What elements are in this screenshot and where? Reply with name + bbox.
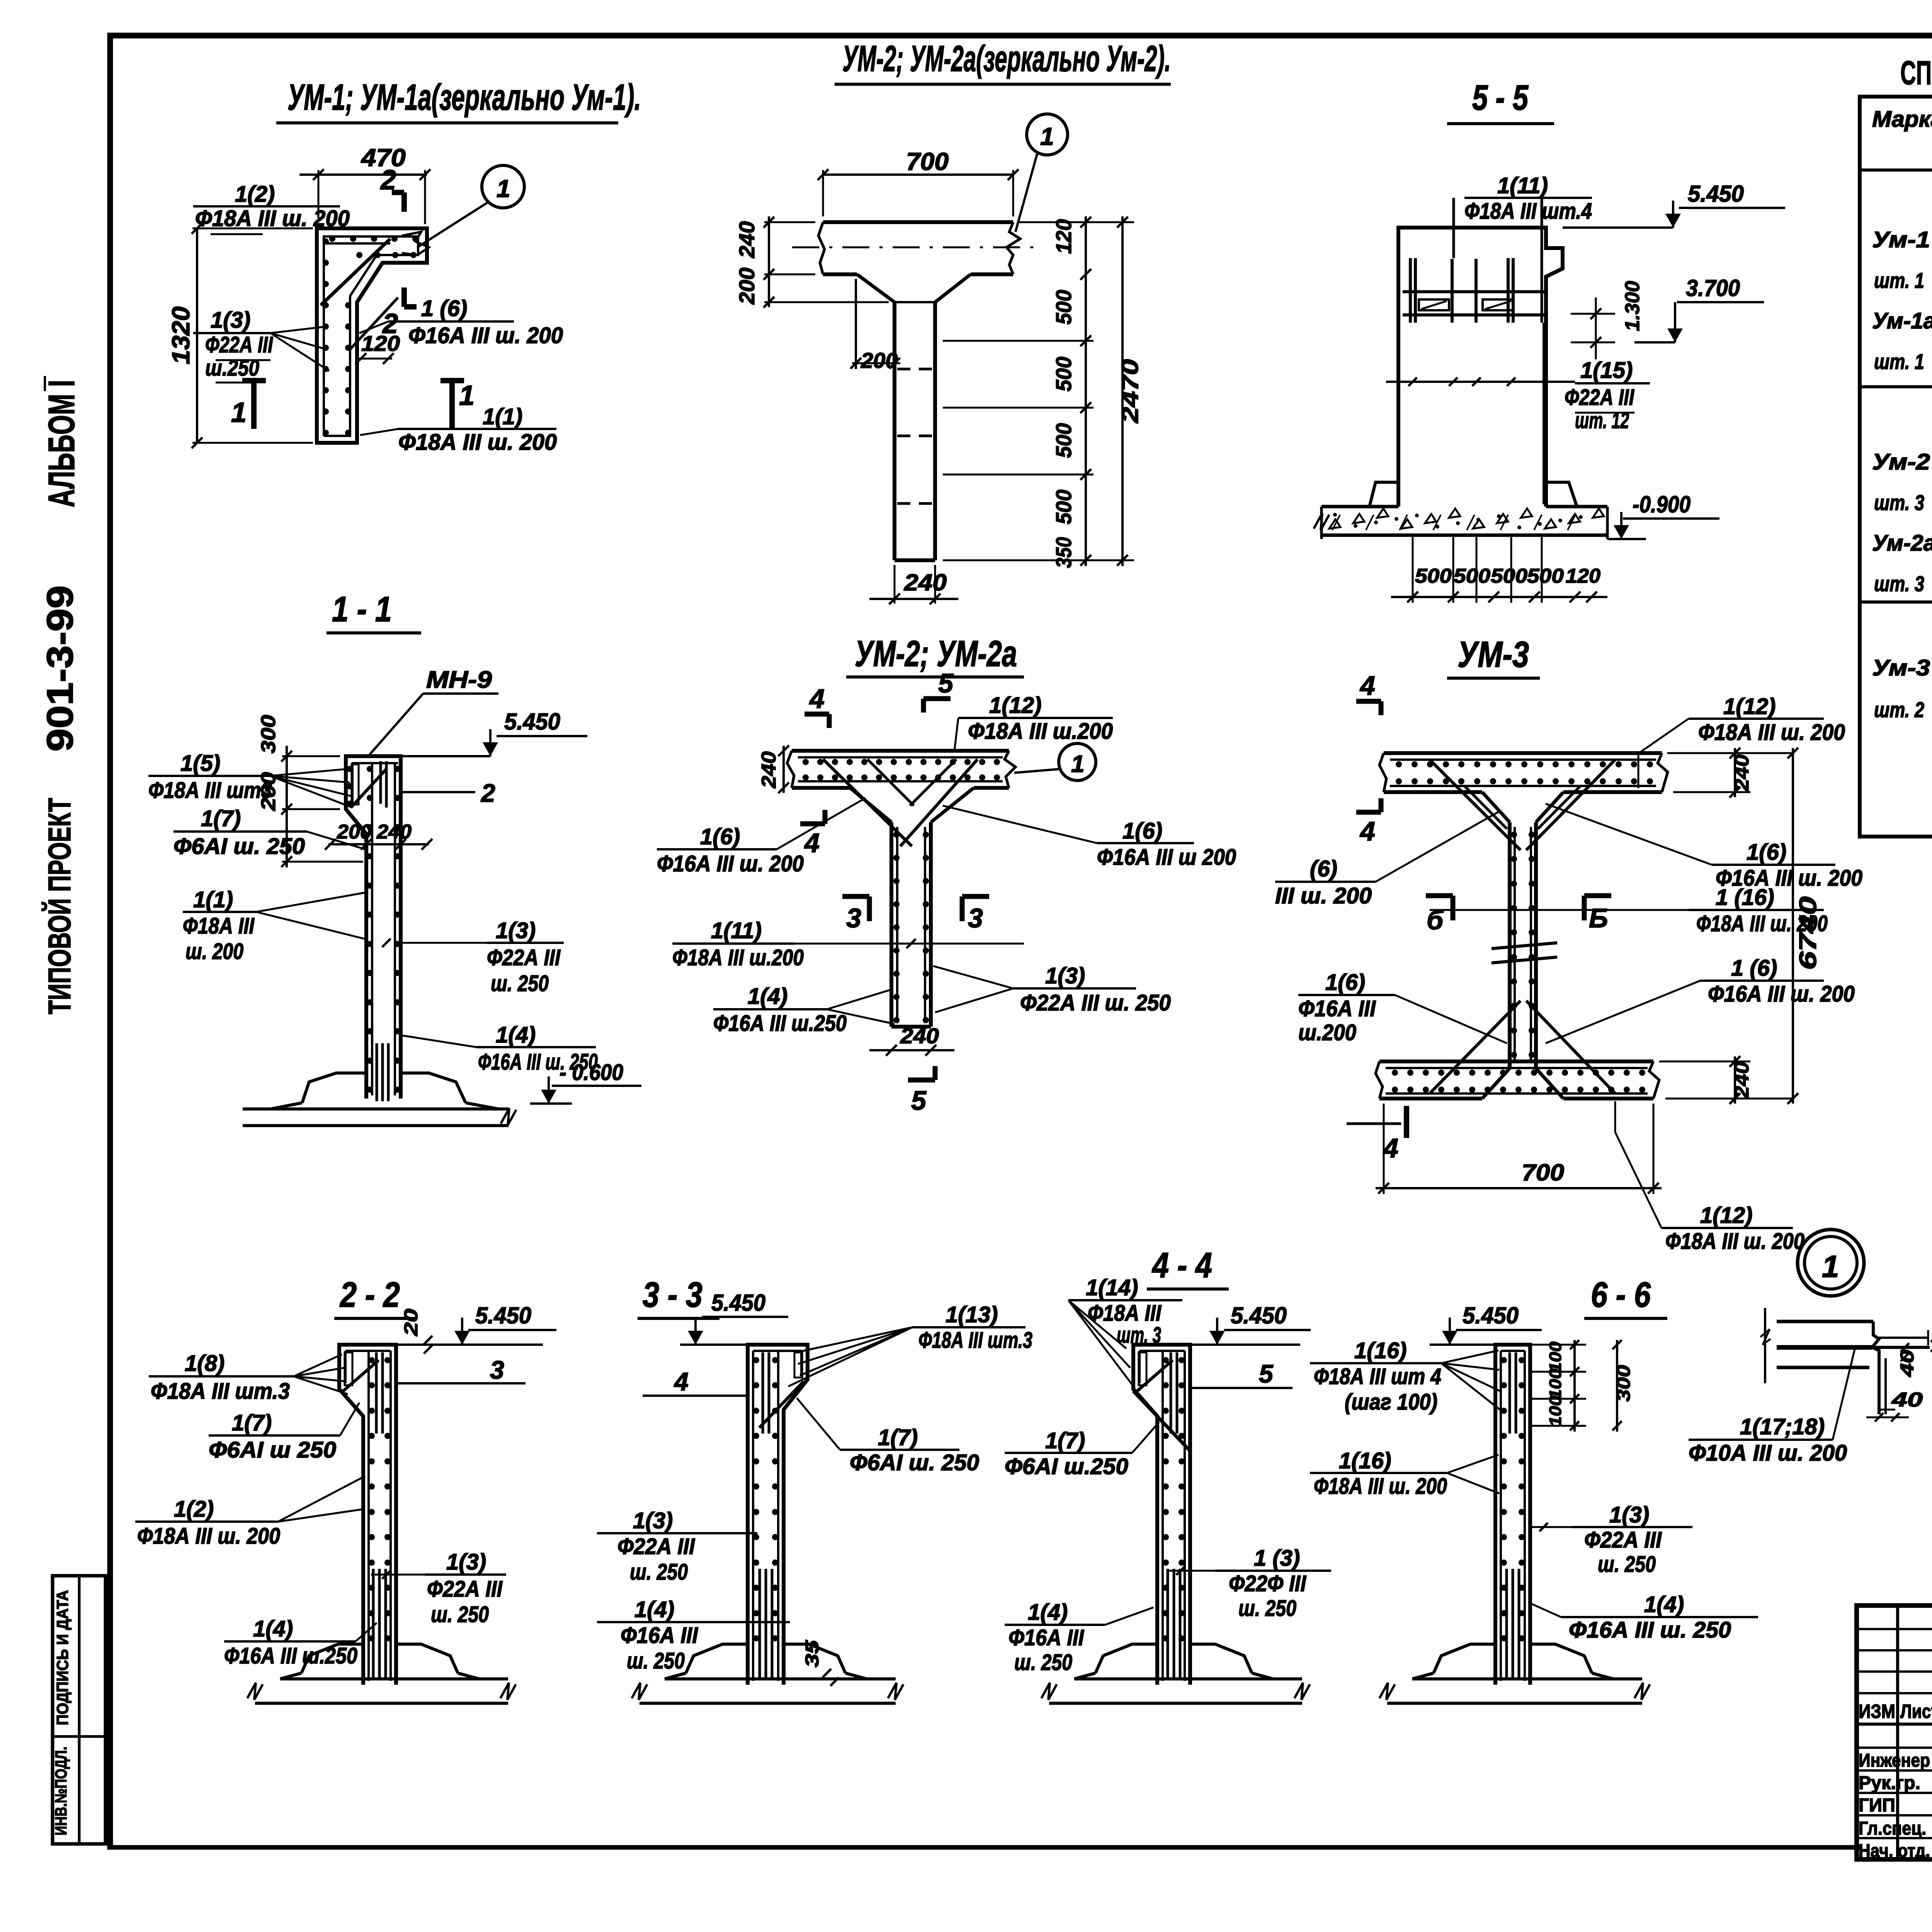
1-1 inner bars bottom — [377, 1043, 388, 1101]
svg-text:4: 4 — [809, 684, 825, 714]
svg-text:3.700: 3.700 — [1686, 275, 1740, 301]
УМ-2 plan stem — [895, 302, 935, 560]
svg-text:1(3): 1(3) — [496, 918, 536, 943]
spec table heading — [1900, 54, 1932, 92]
section marks 3 (УМ-2а) — [842, 896, 989, 933]
svg-text:УМ-3: УМ-3 — [1458, 634, 1529, 675]
dimension 6740 (УМ-3) — [1787, 748, 1821, 1104]
svg-text:100: 100 — [1546, 1341, 1565, 1372]
svg-text:Нач. отд.: Нач. отд. — [1859, 1841, 1930, 1861]
dimension 240 (УМ-2а flange) — [758, 745, 789, 793]
label 1(6) right lower (УМ-3) — [1546, 956, 1855, 1043]
svg-text:2470: 2470 — [1117, 359, 1143, 423]
svg-text:Ф18А III ш. 200: Ф18А III ш. 200 — [137, 1524, 280, 1549]
label 1(7) Ф6АI ш250 (2-2) — [209, 1403, 359, 1463]
label 1(1) Ф18АIII ш.200 (УМ-1) — [360, 404, 557, 455]
label 1(17;18) Ф10АIII ш.200 (detail 1) — [1689, 1349, 1855, 1466]
svg-text:Ф22А III: Ф22А III — [1584, 1527, 1662, 1553]
label 1(7) Ф6АI ш.250 (1-1) — [173, 806, 368, 859]
svg-text:ПОДПИСЬ И ДАТА: ПОДПИСЬ И ДАТА — [53, 1590, 71, 1725]
label 1(13) Ф18АIII шт.3 (3-3) — [788, 1302, 1032, 1386]
label 1(4) Ф16АIII ш.250 (1-1) — [403, 1022, 598, 1075]
level mark -0.900 (5-5) — [1607, 492, 1719, 539]
dimension 1320 — [167, 223, 313, 448]
svg-text:АЛЬБОМ I̅: АЛЬБОМ I̅ — [41, 376, 82, 507]
label 1(6) Ф16АIII ш.200 (УМ-1) — [359, 296, 563, 348]
title block header labels — [1859, 1699, 1932, 1723]
svg-text:III ш. 200: III ш. 200 — [1275, 883, 1372, 908]
svg-text:Ф16А III: Ф16А III — [621, 1623, 699, 1648]
svg-text:1(3): 1(3) — [446, 1549, 486, 1575]
section mark 1 right — [440, 380, 474, 429]
svg-text:Ф22А III ш. 250: Ф22А III ш. 250 — [1020, 990, 1171, 1015]
svg-text:шт. 1: шт. 1 — [1874, 268, 1924, 293]
svg-text:шт. 12: шт. 12 — [1575, 408, 1629, 433]
section mark 5 label (4-4) — [1191, 1359, 1293, 1388]
level mark 3.700 (5-5) — [1634, 275, 1764, 342]
svg-text:1(12): 1(12) — [1700, 1203, 1752, 1228]
svg-text:1(7): 1(7) — [878, 1425, 918, 1450]
svg-text:Ф18А III шт3: Ф18А III шт3 — [148, 778, 272, 803]
label 1(1) Ф18АIII ш.200 (1-1) — [183, 887, 365, 964]
svg-text:700: 700 — [906, 148, 949, 175]
section marks 5 (УМ-2а) — [908, 668, 954, 1116]
svg-text:УМ-2; УМ-2а(зеркально Ум-2).: УМ-2; УМ-2а(зеркально Ум-2). — [842, 38, 1171, 79]
svg-text:240: 240 — [900, 1024, 939, 1048]
svg-text:5 - 5: 5 - 5 — [1472, 78, 1529, 117]
title УМ-2; УМ-2а (section) — [846, 633, 1024, 677]
spec table grid — [1860, 97, 1932, 837]
svg-text:1: 1 — [1822, 1249, 1839, 1284]
callout circle 1 (УМ-2а) — [1014, 743, 1096, 781]
label 1(6) right upper (УМ-3) — [1546, 804, 1862, 891]
svg-text:1(17;18): 1(17;18) — [1740, 1414, 1825, 1439]
dimension 240 (УМ-2а stem bottom) — [869, 1024, 954, 1056]
svg-text:ш.200: ш.200 — [1298, 1020, 1356, 1045]
level mark 5.450 (3-3) — [680, 1290, 788, 1345]
svg-text:1(6): 1(6) — [1747, 840, 1786, 865]
svg-text:Ф18А III шт.3: Ф18А III шт.3 — [918, 1328, 1032, 1353]
svg-text:ш. 250: ш. 250 — [1014, 1650, 1072, 1675]
svg-text:Ф22А III: Ф22А III — [487, 945, 561, 970]
svg-text:1(15): 1(15) — [1580, 358, 1633, 383]
title block left grid — [1857, 1605, 1932, 1859]
УМ-3 stem — [1482, 792, 1563, 1099]
svg-text:1(8): 1(8) — [185, 1351, 224, 1376]
title УМ-1; УМ-1а (зеркально Ум-1) — [276, 77, 641, 123]
label 1(6) left (УМ-2а) — [657, 798, 866, 876]
label 1(3) Ф22АIII ш.250 (6-6) — [1532, 1502, 1692, 1577]
dimension 470 — [299, 144, 430, 224]
label 1(6) left lower (УМ-3) — [1298, 970, 1507, 1045]
svg-text:Ум-2: Ум-2 — [1872, 449, 1930, 474]
1-1 wall outline — [346, 756, 401, 1099]
svg-text:1(12): 1(12) — [1723, 694, 1776, 719]
svg-text:ТИПОВОЙ ПРОЕКТ: ТИПОВОЙ ПРОЕКТ — [42, 798, 77, 1014]
1-1 rebar dots — [347, 766, 400, 1093]
svg-text:Ф18А III ш. 200: Ф18А III ш. 200 — [1698, 720, 1845, 745]
dimension 240 200 left (УМ-2 plan) — [735, 216, 889, 308]
svg-text:35: 35 — [802, 1639, 823, 1667]
svg-text:5.450: 5.450 — [475, 1303, 531, 1328]
svg-text:Ф6АI ш 250: Ф6АI ш 250 — [209, 1437, 336, 1463]
6-6 side extension lines — [1531, 1345, 1586, 1426]
svg-text:Ф18А III шт.4: Ф18А III шт.4 — [1464, 199, 1592, 224]
dimension 700 (УМ-3) — [1376, 1104, 1662, 1194]
svg-text:1: 1 — [497, 175, 510, 202]
svg-text:Ф16А III: Ф16А III — [1009, 1625, 1085, 1650]
svg-text:3: 3 — [490, 1355, 504, 1384]
title block outer — [1857, 1605, 1932, 1859]
svg-text:СПЕЦИФИКАЦИЯ МАРОК АРМАТУРНЫ: СПЕЦИФИКАЦИЯ МАРОК АРМАТУРНЫХ ИЗДЕЛИЙ — [1900, 54, 1932, 92]
svg-text:1: 1 — [231, 397, 247, 428]
level mark 5.450 (6-6) — [1430, 1303, 1542, 1345]
label 1(16) Ф18АIII шт 4 шаг 100 (6-6) — [1310, 1338, 1501, 1415]
svg-text:700: 700 — [1522, 1160, 1564, 1185]
svg-text:Ф6АI ш. 250: Ф6АI ш. 250 — [850, 1450, 979, 1475]
1-1 footing — [243, 1073, 516, 1126]
svg-text:1: 1 — [1071, 751, 1084, 777]
svg-text:5.450: 5.450 — [1231, 1303, 1287, 1328]
svg-text:500: 500 — [1454, 565, 1490, 587]
УМ-3 top flange — [1379, 753, 1668, 792]
detail circle 1 — [1798, 1230, 1864, 1296]
section mark 1 left — [231, 381, 266, 429]
title УМ-2; УМ-2а (зеркально Ум-2) — [835, 38, 1171, 84]
5-5 stirrup loops — [1419, 299, 1514, 310]
svg-text:5.450: 5.450 — [1463, 1303, 1519, 1328]
svg-text:- 0.600: - 0.600 — [560, 1060, 623, 1085]
svg-text:120: 120 — [1051, 219, 1076, 254]
level mark 5.450 (2-2) — [396, 1303, 556, 1345]
svg-text:1(7): 1(7) — [201, 806, 241, 831]
svg-text:Ф18А III шт.3: Ф18А III шт.3 — [151, 1379, 290, 1404]
title 3-3 — [638, 1275, 719, 1318]
dimension 120 (УМ-1) — [355, 331, 400, 364]
svg-text:300: 300 — [1614, 1365, 1634, 1401]
svg-text:Ф22А III: Ф22А III — [617, 1534, 696, 1559]
2-2 wall with footing — [247, 1345, 516, 1705]
svg-text:Рук.гр.: Рук.гр. — [1859, 1773, 1920, 1793]
svg-text:500: 500 — [1415, 565, 1452, 587]
svg-text:Гл.спец.: Гл.спец. — [1859, 1818, 1926, 1839]
5-5 wall outline — [1398, 228, 1563, 507]
svg-text:1(4): 1(4) — [1644, 1592, 1684, 1617]
svg-text:Лист: Лист — [1900, 1701, 1932, 1722]
УМ-2а flange rebar dots — [803, 759, 1000, 781]
detail 1 edge lines — [1760, 1308, 1928, 1410]
svg-text:УМ-1; УМ-1а(зеркально Ум-1).: УМ-1; УМ-1а(зеркально Ум-1). — [287, 77, 641, 118]
svg-text:Ф10А III ш. 200: Ф10А III ш. 200 — [1689, 1440, 1847, 1466]
svg-text:Ф18А III ш.200: Ф18А III ш.200 — [672, 945, 804, 970]
callout circle 1 (УМ-2 plan) — [1015, 114, 1068, 232]
section mark 2 upper — [380, 165, 404, 212]
svg-text:20: 20 — [401, 1309, 422, 1337]
svg-text:5.450: 5.450 — [1688, 181, 1744, 207]
УМ-2 plan haunches — [857, 274, 971, 302]
svg-text:1320: 1320 — [167, 306, 195, 364]
svg-text:1(1): 1(1) — [193, 887, 233, 912]
svg-text:4: 4 — [1359, 816, 1375, 846]
label 1(11) Ф18АIII шт.4 (5-5) — [1464, 173, 1592, 224]
label 1(11) Ф18АIII ш.200 (УМ-2а) — [672, 918, 1024, 970]
label 1(3) Ф22АIII ш.250 (3-3) — [597, 1508, 757, 1585]
svg-text:5.450: 5.450 — [711, 1290, 765, 1316]
label 1(6) right (УМ-2а) — [943, 806, 1236, 870]
svg-text:1(1): 1(1) — [483, 404, 522, 429]
svg-text:6 - 6: 6 - 6 — [1591, 1275, 1651, 1315]
svg-text:ш. 250: ш. 250 — [1238, 1596, 1296, 1621]
svg-text:Ф18А III ш.200: Ф18А III ш.200 — [968, 719, 1113, 744]
section marks 4 (УМ-2а) — [800, 684, 829, 858]
svg-text:Ф22Ф III: Ф22Ф III — [1229, 1571, 1307, 1596]
label 1(2) Ф18АIII ш.200 (2-2) — [135, 1476, 365, 1549]
svg-text:200: 200 — [337, 821, 372, 843]
УМ-1 inner rebar cage — [321, 236, 418, 436]
svg-text:1(6): 1(6) — [1122, 818, 1162, 844]
svg-text:1: 1 — [459, 380, 474, 411]
svg-text:1(3): 1(3) — [211, 308, 250, 333]
left margin text: 901-3-99 — [39, 585, 81, 752]
svg-text:5: 5 — [911, 1085, 927, 1116]
section marks б (УМ-3) — [1426, 896, 1611, 935]
label 1(12) Ф18АIII ш.200 (УМ-3 top) — [1638, 694, 1845, 788]
svg-text:4: 4 — [1383, 1133, 1398, 1163]
svg-text:3 - 3: 3 - 3 — [643, 1275, 702, 1315]
dimension 100x3 (6-6) — [1546, 1340, 1579, 1432]
label 1(4) Ф16АIII ш.250 (УМ-2а) — [713, 984, 895, 1036]
svg-text:6740: 6740 — [1795, 896, 1821, 970]
svg-text:120: 120 — [1566, 565, 1600, 587]
svg-text:ш. 200: ш. 200 — [185, 939, 243, 964]
title 2-2 — [334, 1275, 415, 1318]
svg-text:240: 240 — [904, 570, 947, 595]
svg-text:4: 4 — [673, 1367, 689, 1396]
dimension 35 (3-3) — [802, 1639, 839, 1686]
level mark -0.600 (1-1) — [530, 1060, 641, 1104]
svg-text:240: 240 — [758, 751, 780, 788]
spec table Марка column entries — [1872, 227, 1932, 722]
svg-text:ИЗМ: ИЗМ — [1859, 1701, 1895, 1722]
svg-text:4 - 4: 4 - 4 — [1151, 1246, 1212, 1285]
title 4-4 — [1147, 1246, 1229, 1289]
svg-text:Ф18А III шт 4: Ф18А III шт 4 — [1314, 1364, 1441, 1389]
level mark 5.450 (4-4) — [1190, 1303, 1311, 1345]
svg-text:Ф18А III: Ф18А III — [1088, 1301, 1162, 1326]
spec table header row — [1872, 101, 1932, 148]
УМ-2 stem joint dashes — [895, 302, 935, 503]
label 1(3) Ф22АIII ш.250 — [193, 308, 329, 383]
УМ-3 diagonal bars — [1430, 760, 1615, 1094]
title 5-5 — [1447, 78, 1554, 124]
svg-text:40: 40 — [1891, 1389, 1923, 1411]
svg-text:3: 3 — [846, 903, 861, 933]
svg-text:Ф16А III ш. 200: Ф16А III ш. 200 — [657, 851, 804, 876]
label 1(4) Ф16АIII ш.250 (3-3) — [597, 1597, 790, 1673]
svg-text:Ф16А III ш 200: Ф16А III ш 200 — [1097, 845, 1236, 870]
dimension 200 stem offset (УМ-2 plan) — [850, 279, 900, 372]
3-3 wall with footing — [632, 1345, 903, 1705]
svg-text:ГИП: ГИП — [1859, 1795, 1895, 1816]
svg-text:ИНВ.№ПОДЛ.: ИНВ.№ПОДЛ. — [52, 1747, 70, 1835]
svg-text:Ф22А III: Ф22А III — [205, 332, 274, 357]
svg-text:120: 120 — [361, 331, 400, 355]
svg-text:Ф22А III: Ф22А III — [1565, 385, 1635, 410]
svg-text:500: 500 — [1051, 423, 1076, 458]
svg-text:1(16): 1(16) — [1354, 1338, 1406, 1363]
svg-text:1(3): 1(3) — [1045, 963, 1085, 988]
label 1(14) Ф18АIII шт.3 (4-4) — [1068, 1275, 1182, 1387]
svg-text:1(5): 1(5) — [180, 751, 220, 776]
svg-text:шт. 3: шт. 3 — [1874, 490, 1924, 515]
svg-text:1(7): 1(7) — [1045, 1428, 1085, 1453]
svg-text:1(4): 1(4) — [1028, 1600, 1068, 1625]
svg-text:1(2): 1(2) — [174, 1497, 214, 1522]
svg-text:2: 2 — [380, 165, 396, 196]
svg-text:Ум-1а: Ум-1а — [1872, 308, 1932, 333]
svg-text:Ум-1: Ум-1 — [1872, 227, 1930, 252]
svg-text:100: 100 — [1546, 1368, 1565, 1400]
svg-text:1(11): 1(11) — [1497, 173, 1548, 198]
dimension 200 240 (1-1) — [325, 821, 432, 850]
УМ-2а diagonal bars — [823, 759, 978, 846]
left margin text: Альбом I — [41, 376, 82, 507]
svg-text:Ф6АI ш.250: Ф6АI ш.250 — [1005, 1454, 1128, 1479]
svg-text:МН-9: МН-9 — [426, 667, 492, 693]
label 1(16) Ф18АIII ш.200 (УМ-3) — [1430, 885, 1828, 936]
УМ-2а flange outline — [787, 751, 1015, 788]
svg-text:5: 5 — [1259, 1359, 1274, 1388]
svg-text:Ф6АI ш. 250: Ф6АI ш. 250 — [173, 834, 305, 859]
svg-text:Ф18А III ш. 200: Ф18А III ш. 200 — [398, 430, 557, 455]
svg-text:4: 4 — [1359, 670, 1375, 701]
level mark 5.450 (1-1) — [401, 709, 587, 756]
label 1(12) Ф18АIII ш.200 (УМ-3 bottom) — [1615, 1101, 1804, 1254]
5-5 vertical bars — [1410, 198, 1544, 504]
svg-text:100: 100 — [1546, 1395, 1565, 1427]
УМ-1 flange dots — [329, 236, 418, 258]
svg-text:1 (16): 1 (16) — [1716, 885, 1774, 910]
dimension 2470 (УМ-2 plan) — [1117, 216, 1143, 566]
label 1(6) left upper (УМ-3) — [1275, 811, 1499, 908]
svg-text:1 (3): 1 (3) — [1254, 1546, 1300, 1571]
svg-text:ш. 250: ш. 250 — [627, 1648, 685, 1673]
svg-text:500: 500 — [1051, 290, 1076, 325]
svg-text:1(11): 1(11) — [711, 918, 762, 943]
section mark 4 label (3-3) — [643, 1367, 748, 1396]
svg-text:Ф22А III: Ф22А III — [427, 1577, 503, 1602]
svg-text:Ф18А III ш. 200: Ф18А III ш. 200 — [195, 206, 350, 231]
svg-text:1(4): 1(4) — [496, 1022, 536, 1048]
section marks 4 (УМ-3) — [1356, 670, 1381, 846]
svg-text:Ф18А III ш. 200: Ф18А III ш. 200 — [1665, 1229, 1804, 1254]
title 6-6 — [1584, 1275, 1667, 1318]
svg-text:1(4): 1(4) — [748, 984, 787, 1009]
svg-text:1 - 1: 1 - 1 — [332, 590, 392, 629]
dimension 240 stem bottom (УМ-2 plan) — [869, 565, 958, 604]
svg-text:350: 350 — [1051, 537, 1076, 568]
label 1(5) Ф18АIII шт3 (1-1) — [148, 751, 352, 808]
5-5 bottom bar extensions — [1413, 537, 1542, 603]
6-6 wall with footing — [1379, 1345, 1650, 1705]
label 1(4) Ф16АIII ш.250 (6-6) — [1531, 1592, 1758, 1643]
svg-text:(шаг 100): (шаг 100) — [1345, 1389, 1437, 1415]
svg-text:1(6): 1(6) — [700, 824, 740, 849]
dimension 300 (6-6) — [1612, 1340, 1634, 1432]
svg-text:ш. 250: ш. 250 — [1598, 1552, 1656, 1577]
УМ-3 bottom flange — [1376, 1061, 1659, 1099]
svg-text:1 (6): 1 (6) — [421, 296, 467, 321]
section mark 2 (1-1) — [402, 779, 495, 807]
section mark 3 (2-2) — [397, 1355, 526, 1384]
svg-text:1(13): 1(13) — [946, 1302, 998, 1327]
УМ-1 section outline — [317, 228, 427, 443]
svg-text:5.450: 5.450 — [504, 709, 560, 735]
svg-text:ш. 250: ш. 250 — [431, 1602, 489, 1627]
svg-text:240: 240 — [735, 221, 759, 259]
svg-text:1(14): 1(14) — [1086, 1275, 1138, 1300]
callout circle 1 (УМ-1) — [402, 165, 524, 255]
svg-text:1(12): 1(12) — [989, 693, 1041, 718]
dimension 700 (УМ-2 plan) — [818, 148, 1019, 216]
svg-text:1(3): 1(3) — [1609, 1502, 1649, 1527]
label 1(2) Ф18АIII ш.200 — [193, 182, 350, 234]
svg-text:Ф18А III ш. 200: Ф18А III ш. 200 — [1314, 1474, 1447, 1499]
4-4 wall with footing — [1041, 1345, 1310, 1705]
svg-text:40: 40 — [1929, 1310, 1932, 1338]
section mark 4 lower strip (УМ-3) — [1347, 1106, 1406, 1163]
svg-text:1(3): 1(3) — [633, 1508, 673, 1533]
svg-text:Ум-2а: Ум-2а — [1872, 531, 1932, 556]
dimension 20 (2-2) — [401, 1309, 432, 1354]
svg-text:300: 300 — [257, 715, 280, 753]
УМ-2а stem rebar dots — [893, 832, 929, 1023]
svg-text:Ум-3: Ум-3 — [1872, 655, 1930, 680]
svg-text:Ф18А III: Ф18А III — [183, 913, 255, 939]
dimension 240 (УМ-3 top flange) — [1667, 748, 1793, 798]
svg-text:шт. 3: шт. 3 — [1874, 571, 1924, 596]
svg-text:1 (6): 1 (6) — [1731, 956, 1777, 981]
svg-text:1: 1 — [1040, 122, 1054, 150]
svg-text:5: 5 — [938, 668, 954, 698]
svg-text:Б: Б — [1589, 903, 1608, 933]
УМ-2 plan centerline — [792, 247, 1043, 248]
svg-text:500: 500 — [1051, 490, 1076, 524]
УМ-3 stem break mark — [1492, 943, 1557, 963]
label 1(7) Ф6АI ш.250 (3-3) — [797, 1398, 979, 1475]
svg-text:Ф16А III ш.250: Ф16А III ш.250 — [713, 1011, 847, 1036]
svg-text:1(4): 1(4) — [634, 1597, 674, 1622]
svg-text:Марка: Марка — [1872, 107, 1932, 132]
svg-text:шт. 2: шт. 2 — [1874, 697, 1924, 722]
svg-text:2 - 2: 2 - 2 — [339, 1275, 400, 1315]
label 1(3) Ф22ФIII ш.250 (4-4) — [1167, 1546, 1331, 1621]
svg-text:-0.900: -0.900 — [1633, 492, 1690, 517]
svg-text:ш. 250: ш. 250 — [630, 1560, 688, 1585]
svg-text:1(7): 1(7) — [232, 1410, 272, 1435]
label 1(7) Ф6АI ш.250 (4-4) — [1005, 1422, 1159, 1479]
detail 1 dims 40 — [1866, 1310, 1932, 1422]
label 1(4) Ф16АIII ш.250 (2-2) — [224, 1616, 377, 1668]
svg-text:1(16): 1(16) — [1339, 1448, 1391, 1473]
svg-text:Инженер: Инженер — [1859, 1750, 1930, 1771]
dimension 240 (УМ-3 bottom flange) — [1659, 1056, 1793, 1104]
detail 1 slab sketch — [1765, 1308, 1930, 1414]
label МН-9 (1-1) — [368, 667, 498, 756]
1-1 inner faces — [351, 761, 398, 1095]
svg-text:УМ-2; УМ-2а: УМ-2; УМ-2а — [855, 633, 1017, 674]
svg-text:ш. 250: ш. 250 — [491, 971, 549, 996]
